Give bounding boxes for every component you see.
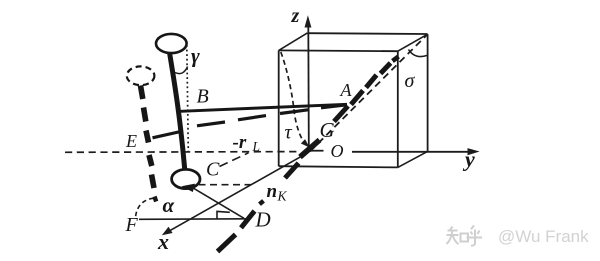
box top-left slant edge: [279, 33, 308, 51]
box front face right edge: [397, 51, 399, 167]
svg-text:-r: -r: [233, 132, 247, 153]
tau curved dashed arrow: [281, 52, 306, 144]
dashed pendulum rod dash 1: [141, 86, 143, 100]
thin dashed diagonal O to box corner: [310, 35, 427, 152]
thick dashed nK line dash 6 at A: [334, 106, 348, 122]
dashed pendulum rod dash 3: [146, 131, 149, 143]
svg-text:F: F: [125, 214, 139, 236]
horizontal line F to D: [139, 218, 247, 221]
svg-text:C: C: [206, 159, 220, 181]
pendulum rod: [170, 53, 185, 171]
svg-text:E: E: [125, 131, 137, 151]
alpha dashed arc: [135, 198, 153, 219]
thick dashed nK line dash 8: [366, 75, 377, 88]
svg-text:γ: γ: [191, 44, 200, 68]
pendulum top ellipse: [156, 34, 187, 53]
gamma angle arc: [175, 67, 188, 74]
svg-text:x: x: [157, 229, 169, 254]
dashed horizontal line from x-axis to bob: [199, 184, 252, 186]
box top-right slant edge: [398, 34, 428, 51]
thick dashed line E to A dash 3: [238, 116, 266, 120]
thick dashed line E to A dash 2: [197, 122, 225, 126]
thick dashed nK line dash 4: [285, 163, 299, 178]
thick line B to A: [181, 104, 348, 111]
box front face top edge: [279, 49, 398, 52]
svg-text:O: O: [331, 141, 344, 161]
svg-text:α: α: [163, 193, 175, 217]
watermark zhihu glyphs: [447, 226, 483, 246]
thick dashed line E to A dash 5: [321, 105, 347, 108]
svg-text:A: A: [340, 80, 353, 100]
thick dashed nK line dash 9: [381, 63, 391, 74]
svg-text:B: B: [197, 85, 209, 107]
thick dashed line E to A dash 1: [153, 131, 184, 138]
svg-text:L: L: [252, 139, 261, 154]
box front face left edge: [278, 50, 280, 166]
svg-text:σ: σ: [405, 70, 416, 92]
svg-text:τ: τ: [285, 121, 293, 143]
dashed pendulum rod dash 2: [144, 108, 146, 122]
box back-right edge: [427, 34, 429, 151]
svg-text:K: K: [277, 189, 288, 204]
dashed horizontal line through E (-rL line): [65, 151, 297, 154]
svg-text:D: D: [255, 207, 271, 231]
line bob to D: [192, 187, 244, 218]
box bottom-right slant edge: [398, 151, 428, 167]
svg-text:n: n: [267, 181, 278, 202]
arrow into bob: [182, 184, 196, 192]
dashed pendulum rod dash 6: [155, 197, 157, 202]
y-axis: [352, 151, 471, 153]
svg-text:@Wu Frank: @Wu Frank: [498, 227, 589, 246]
dashed pendulum rod dash 4: [149, 155, 152, 166]
svg-text:z: z: [291, 5, 300, 27]
thick dashed line E to A dash 4: [280, 110, 308, 114]
thick dashed nK line dash 5 through origin: [300, 140, 320, 157]
dashed pendulum rod dash 5: [152, 175, 155, 189]
thick dashed nK line dash 3 (dot): [260, 201, 264, 204]
z-axis: [307, 24, 310, 146]
thick dashed nK line dash 7: [351, 91, 363, 105]
dashed leader from C to rL line: [220, 153, 249, 167]
dotted plumb line: [187, 45, 189, 152]
thick dashed nK line dash 1: [218, 235, 236, 252]
thick dashed nK line dash 2: [241, 211, 255, 228]
x-axis: [166, 152, 309, 233]
box front face bottom edge: [279, 166, 398, 167]
box top-back edge: [307, 32, 427, 35]
sigma angle arc: [409, 50, 428, 57]
pendulum bob C: [172, 169, 200, 188]
dashed pendulum ellipse: [127, 66, 155, 85]
svg-text:G: G: [320, 118, 335, 142]
thick dashed nK line dash 10: [393, 57, 399, 62]
right angle mark at D: [217, 211, 230, 218]
